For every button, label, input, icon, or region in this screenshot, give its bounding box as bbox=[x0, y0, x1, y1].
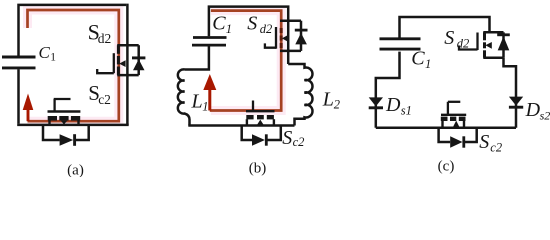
label C1 (c) bbox=[411, 48, 431, 71]
svg-text:s1: s1 bbox=[401, 104, 412, 118]
label Ds2 (c) bbox=[525, 99, 550, 123]
label Sc2 (b) bbox=[282, 127, 304, 149]
label Sd2 (b) bbox=[247, 12, 272, 35]
svg-text:L: L bbox=[191, 90, 203, 112]
diode Ds1 (c) bbox=[369, 97, 383, 107]
transistor Sd2 (a) bbox=[97, 45, 139, 75]
label L1 (b) bbox=[191, 90, 209, 113]
capacitor C1 (b) bbox=[192, 38, 227, 46]
wire: outline (b) bbox=[185, 7, 289, 70]
svg-text:1: 1 bbox=[425, 57, 431, 71]
label Sd2 (a) bbox=[88, 20, 112, 47]
diode of Sd2 (b) bbox=[295, 21, 308, 51]
svg-text:D: D bbox=[385, 94, 401, 116]
svg-text:c2: c2 bbox=[98, 92, 111, 107]
red loop glow (b) bbox=[211, 11, 281, 111]
svg-text:(b): (b) bbox=[249, 161, 267, 177]
capacitor C1 (c) bbox=[380, 39, 421, 49]
wire: top and columns (c) bbox=[376, 17, 516, 128]
svg-text:S: S bbox=[444, 27, 454, 49]
svg-text:1: 1 bbox=[50, 52, 56, 64]
transistor Sc2 (c) bbox=[441, 102, 466, 128]
bypass diode loop of Sc2 (b) bbox=[242, 126, 281, 146]
red arrow (b) bbox=[203, 74, 216, 111]
svg-text:s2: s2 bbox=[540, 109, 550, 123]
svg-text:S: S bbox=[247, 12, 257, 34]
transistor Sd2 (c) bbox=[459, 32, 504, 57]
svg-text:1: 1 bbox=[226, 22, 232, 36]
diode of Sd2 (a) bbox=[132, 45, 145, 75]
capacitor C1 (a) bbox=[2, 57, 36, 68]
label Sc2 (c) bbox=[479, 131, 502, 155]
transistor Sc2 (a) bbox=[48, 99, 81, 125]
red current loop (a) bbox=[28, 10, 119, 121]
label Sd2 (c) bbox=[444, 27, 469, 51]
svg-text:(c): (c) bbox=[438, 159, 455, 175]
svg-text:C: C bbox=[39, 43, 51, 62]
label Ds1 (c) bbox=[385, 94, 412, 118]
transistor Sd2 (b) bbox=[265, 21, 301, 51]
diode Ds2 (c) bbox=[509, 97, 523, 108]
svg-text:1: 1 bbox=[202, 100, 208, 114]
bypass diode loop of Sc2 (c) bbox=[439, 128, 477, 148]
label C1 (a) bbox=[39, 43, 57, 64]
label Sc2 (a) bbox=[88, 81, 111, 107]
svg-text:2: 2 bbox=[334, 98, 340, 112]
label L2 (b) bbox=[322, 88, 340, 111]
red loop glow (a) bbox=[28, 10, 119, 121]
svg-text:d2: d2 bbox=[98, 31, 112, 46]
svg-text:C: C bbox=[212, 12, 226, 34]
svg-text:D: D bbox=[525, 99, 541, 121]
svg-text:S: S bbox=[282, 127, 292, 149]
svg-text:S: S bbox=[479, 131, 489, 153]
inductor L2 (b) bbox=[288, 64, 312, 126]
diode of Sd2 (c) bbox=[497, 32, 510, 57]
bypass diode loop of Sc2 (a) bbox=[43, 125, 89, 146]
svg-text:L: L bbox=[322, 88, 334, 110]
red arrow (a) bbox=[23, 94, 34, 122]
svg-text:c2: c2 bbox=[490, 141, 502, 155]
transistor Sc2 (b) bbox=[246, 101, 275, 126]
wire: box outline (a) bbox=[17, 4, 129, 125]
svg-text:d2: d2 bbox=[457, 37, 470, 51]
label C1 (b) bbox=[212, 12, 232, 35]
svg-text:C: C bbox=[411, 48, 425, 70]
red current loop (b) bbox=[210, 11, 281, 111]
wire: bottom (b) bbox=[188, 124, 294, 127]
svg-text:(a): (a) bbox=[67, 163, 84, 178]
inductor L1 (b) bbox=[178, 69, 190, 125]
svg-text:c2: c2 bbox=[293, 135, 305, 149]
svg-text:d2: d2 bbox=[260, 22, 273, 36]
